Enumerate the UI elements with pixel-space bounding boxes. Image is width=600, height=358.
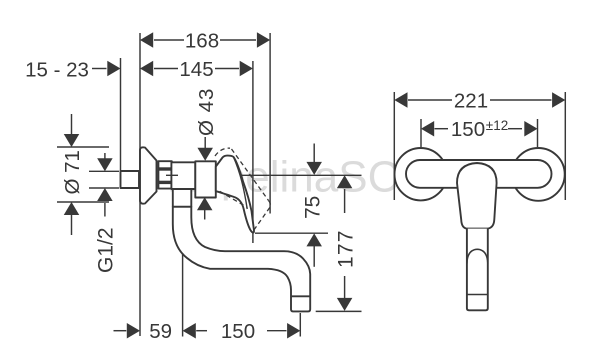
svg-text:59: 59	[149, 320, 172, 343]
svg-text:150: 150	[221, 320, 255, 343]
svg-text:Ø 71: Ø 71	[61, 150, 84, 194]
svg-text:Ø 43: Ø 43	[195, 88, 218, 136]
svg-text:221: 221	[454, 90, 488, 113]
svg-text:145: 145	[179, 58, 213, 81]
svg-text:G1/2: G1/2	[95, 227, 118, 273]
svg-text:15 - 23: 15 - 23	[25, 59, 89, 82]
svg-text:177: 177	[334, 229, 357, 268]
svg-text:150: 150	[451, 118, 485, 141]
svg-text:±12: ±12	[486, 118, 508, 133]
svg-text:168: 168	[185, 30, 219, 53]
svg-text:75: 75	[302, 196, 325, 219]
